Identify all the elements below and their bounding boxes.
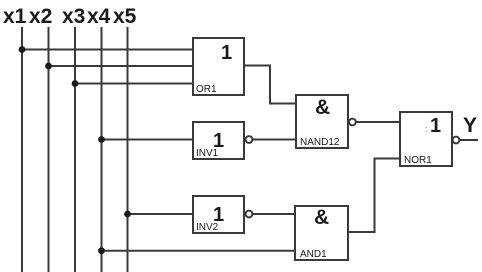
wire x5 vertical bus — [127, 27, 129, 272]
wire x4 vertical bus — [101, 27, 103, 272]
svg-text:AND1: AND1 — [300, 249, 327, 260]
junction on x3 — [72, 80, 79, 87]
svg-text:x4: x4 — [87, 5, 111, 28]
wire x1 vertical bus — [21, 27, 23, 272]
wire NOR1 output Y — [459, 139, 478, 141]
svg-text:x1: x1 — [3, 5, 27, 28]
wire x1 to OR1 input 1 — [22, 49, 193, 51]
svg-text:x3: x3 — [62, 5, 85, 28]
svg-text:&: & — [315, 96, 330, 119]
svg-text::: : — [425, 124, 428, 134]
junction on x1 — [19, 46, 26, 53]
junction on x2 — [45, 63, 52, 70]
svg-text:1: 1 — [430, 115, 441, 137]
svg-text:Y: Y — [463, 114, 477, 137]
junction on x5 — [124, 211, 131, 218]
svg-text:NOR1: NOR1 — [404, 155, 432, 166]
junction on x4 — [98, 136, 105, 143]
svg-text:INV1: INV1 — [196, 148, 219, 159]
svg-text:1: 1 — [221, 42, 232, 64]
svg-text:x2: x2 — [29, 5, 52, 28]
op gate OR1 — [193, 38, 244, 95]
wire AND1 output to NOR1 input 2 — [348, 159, 400, 233]
wire x4 to AND1 input 2 — [102, 250, 296, 252]
svg-text:x5: x5 — [113, 5, 137, 28]
wire x4 to INV1 input — [102, 139, 194, 141]
wire x5 to INV2 input — [128, 213, 194, 215]
junction on x4 lower — [98, 247, 105, 254]
svg-text:NAND12: NAND12 — [300, 137, 340, 148]
wire x2 to OR1 input 2 — [49, 65, 194, 67]
inverter INV1 — [193, 122, 252, 159]
wire x3 vertical bus — [74, 27, 76, 272]
svg-text:INV2: INV2 — [196, 222, 219, 233]
nand gate NAND12 — [296, 95, 356, 148]
and gate AND1 — [295, 206, 348, 260]
inverter INV2 — [193, 196, 252, 233]
svg-text:&: & — [314, 206, 329, 229]
svg-text:OR1: OR1 — [196, 84, 217, 95]
wire INV1 output to NAND12 input 2 — [252, 139, 296, 141]
nor gate NOR1 — [400, 112, 459, 166]
wire x3 to OR1 input 3 — [75, 83, 193, 85]
wire x2 vertical bus — [48, 27, 50, 272]
wire OR1 output to NAND12 input 1 — [244, 66, 296, 104]
wire NAND12 output to NOR1 input 1 — [356, 121, 400, 123]
wire INV2 output to AND1 input 1 — [252, 213, 295, 215]
